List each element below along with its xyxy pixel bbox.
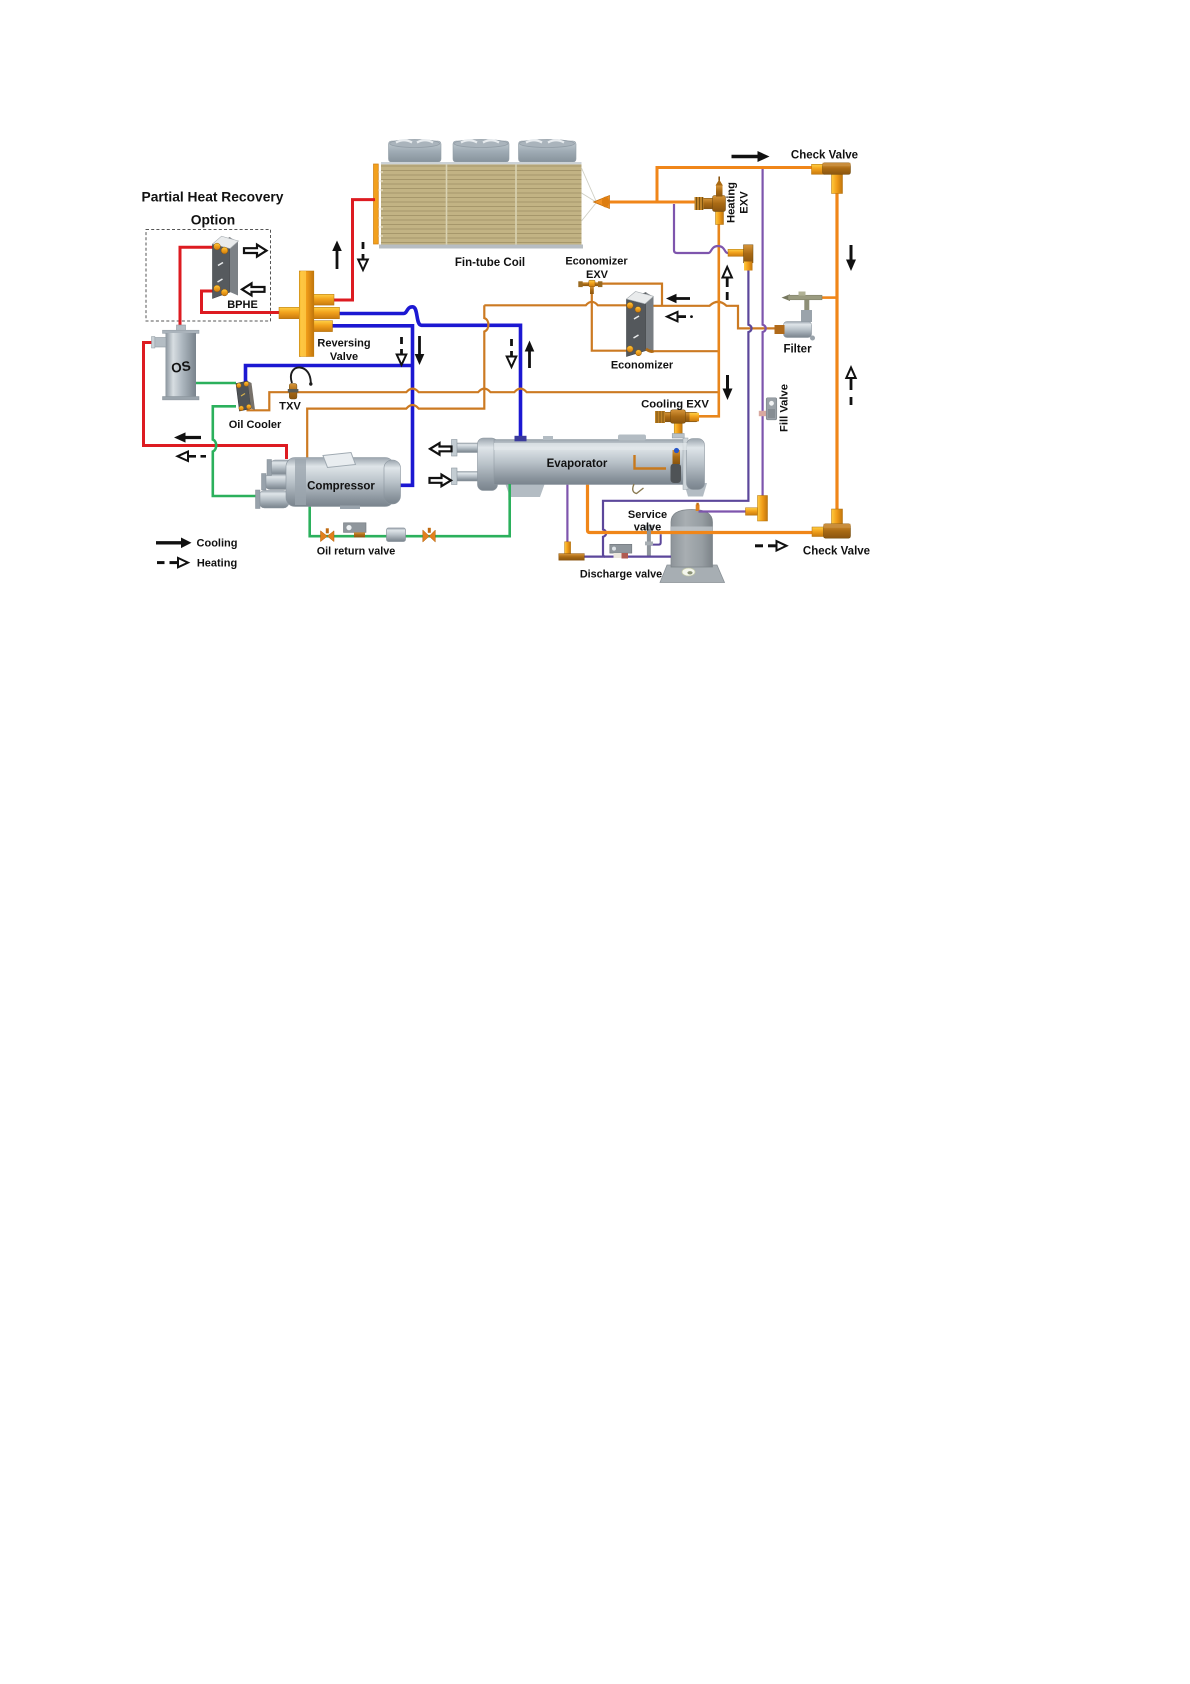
compressor bbox=[256, 453, 401, 510]
arrow: down dashed at evap blue bbox=[507, 339, 517, 367]
blue pipe B: valve to compressor bbox=[332, 326, 413, 486]
svg-text:Economizer: Economizer bbox=[565, 256, 628, 268]
svg-text:Fill Valve: Fill Valve bbox=[779, 384, 791, 432]
dashed option box bbox=[146, 230, 271, 322]
svg-text:Discharge valve: Discharge valve bbox=[580, 569, 662, 581]
thin orange: economizer EXV branch bbox=[601, 284, 662, 306]
oil return valve assembly bbox=[321, 523, 436, 542]
arrow: hollow left dashed (red line) bbox=[178, 452, 207, 461]
fan 3 bbox=[519, 140, 577, 163]
arrow: up solid (cooling, left of red riser) bbox=[332, 241, 342, 270]
BPHE heat exchanger bbox=[213, 236, 239, 298]
check valve top right bbox=[812, 163, 851, 194]
red pipe: OS to compressor bbox=[144, 343, 287, 460]
fitting under evaporator drain bbox=[559, 542, 585, 560]
purple: evaporator drain to fitting bbox=[566, 483, 568, 542]
svg-text:Oil Cooler: Oil Cooler bbox=[229, 419, 282, 431]
evaporator bbox=[452, 435, 708, 501]
arrow: down solid at blue pair bbox=[415, 336, 425, 365]
svg-text:Heating: Heating bbox=[726, 182, 738, 223]
thin orange: liquid line to economizer and filter bbox=[484, 302, 776, 329]
purple: service valve tap bbox=[650, 534, 661, 544]
fan 2 bbox=[453, 140, 509, 163]
arrow: hollow up + dash right main bbox=[846, 368, 855, 406]
svg-text:EXV: EXV bbox=[586, 269, 609, 281]
svg-text:Compressor: Compressor bbox=[307, 481, 375, 493]
arrow: solid down right main bbox=[846, 245, 856, 271]
thick orange: filter outlet bbox=[821, 296, 837, 299]
svg-text:EXV: EXV bbox=[739, 191, 751, 214]
svg-text:Partial Heat Recovery: Partial Heat Recovery bbox=[142, 190, 284, 205]
purple: top line to fill valve and tee fitting bbox=[763, 169, 766, 496]
orange: heating EXV drop to cooling EXV bbox=[698, 209, 719, 416]
purple: heating EXV tap to elbow bbox=[674, 204, 730, 253]
arrow: dashed right (bottom check valve) bbox=[755, 541, 787, 550]
coil left header bar bbox=[374, 164, 379, 244]
label: Heating EXV (rotated) bbox=[726, 182, 751, 223]
svg-text:Reversing: Reversing bbox=[317, 338, 370, 350]
arrow: solid left (economizer) bbox=[666, 294, 690, 304]
blue branch to oil cooler bbox=[246, 366, 413, 383]
purple: bottom run to accumulator bbox=[584, 555, 671, 557]
filter bbox=[775, 292, 823, 341]
internals right end bbox=[635, 455, 667, 469]
tee fitting above accumulator bbox=[746, 496, 768, 522]
svg-text:Fin-tube Coil: Fin-tube Coil bbox=[455, 257, 525, 269]
svg-text:BPHE: BPHE bbox=[227, 299, 258, 311]
svg-text:OS: OS bbox=[170, 358, 192, 376]
arrow: BPHE in (hollow block left) bbox=[242, 283, 265, 295]
oil cooler bbox=[236, 381, 255, 411]
thin orange: EXV to economizer bottom bbox=[592, 287, 627, 351]
fan 1 bbox=[389, 140, 442, 163]
thick orange: evaporator drain and bottom main line bbox=[588, 483, 837, 533]
service valve bbox=[645, 526, 653, 556]
arrow: hollow left (evaporator top) bbox=[430, 443, 452, 455]
arrow: down dashed at blue pair bbox=[397, 337, 407, 365]
thin orange: economizer bottom out bbox=[653, 350, 718, 352]
arrow: solid right to check valve bbox=[732, 151, 770, 162]
svg-text:Cooling EXV: Cooling EXV bbox=[641, 399, 709, 411]
right distributor bbox=[582, 167, 597, 222]
violet: elbow drop to low purple run bbox=[603, 270, 752, 557]
red pipe: BPHE bottom to reversing valve bbox=[202, 291, 285, 313]
arrow: hollow right (evaporator bottom) bbox=[430, 475, 452, 487]
arrow: hollow up + dash (heating exv riser) bbox=[723, 267, 732, 300]
svg-text:Filter: Filter bbox=[783, 344, 812, 356]
svg-text:Evaporator: Evaporator bbox=[547, 458, 608, 470]
fill valve bbox=[759, 398, 777, 420]
svg-text:Economizer: Economizer bbox=[611, 360, 674, 372]
svg-text:Oil return valve: Oil return valve bbox=[317, 546, 396, 558]
thick orange: right vertical main bbox=[835, 193, 838, 511]
OS oil separator bbox=[152, 325, 200, 400]
legend bbox=[156, 538, 192, 549]
svg-text:Service: Service bbox=[628, 509, 667, 521]
green pipe: compressor loop to evaporator bbox=[310, 483, 510, 536]
accumulator tank bbox=[660, 503, 725, 583]
svg-text:Cooling: Cooling bbox=[197, 538, 238, 550]
purple: tee fitting to accumulator stub bbox=[699, 510, 747, 512]
thin orange: oil cooler to TXV line bbox=[247, 389, 719, 411]
svg-text:Heating: Heating bbox=[197, 557, 237, 569]
label: Fill Valve (rotated) bbox=[779, 384, 791, 432]
fin-tube coil bbox=[374, 140, 610, 249]
svg-text:TXV: TXV bbox=[279, 401, 301, 413]
red pipe: reversing valve to coil bbox=[334, 200, 375, 300]
economizer EXV bbox=[578, 280, 602, 294]
cooling EXV bbox=[655, 410, 699, 438]
thick orange: riser to top line and check valve bbox=[656, 168, 813, 203]
arrow: solid down (cooling exv feed) bbox=[723, 375, 733, 400]
green pipe: OS to oil cooler bbox=[196, 382, 237, 385]
reversing valve bbox=[279, 271, 340, 357]
svg-text:Valve: Valve bbox=[330, 351, 358, 363]
green pipe: oil cooler to compressor bbox=[213, 406, 261, 496]
arrow: up solid at evap blue bbox=[525, 341, 535, 369]
thin orange: compressor top riser to liquid line bbox=[307, 305, 488, 463]
heating EXV bbox=[695, 177, 726, 225]
arrow: BPHE out (solid block right) bbox=[244, 245, 267, 257]
svg-text:Check Valve: Check Valve bbox=[803, 546, 870, 558]
svg-text:valve: valve bbox=[634, 522, 662, 534]
check valve bottom right bbox=[812, 509, 851, 538]
economizer bbox=[627, 292, 654, 357]
arrow: solid left (OS red line) bbox=[174, 432, 201, 442]
svg-text:Check Valve: Check Valve bbox=[791, 150, 858, 162]
coil body bbox=[381, 162, 582, 245]
red pipe: BPHE top to OS bbox=[180, 247, 213, 327]
TXV bbox=[288, 367, 313, 399]
arrow: hollow left dashed (economizer) bbox=[667, 312, 693, 321]
discharge valve bbox=[610, 544, 632, 558]
blue pipe A: valve to evaporator bbox=[334, 307, 521, 438]
svg-text:Option: Option bbox=[191, 213, 235, 228]
thick orange: distributor to heating EXV bbox=[610, 201, 701, 204]
elbow fitting (heating exv line) bbox=[728, 245, 753, 271]
arrow: down dashed (heating, right of red riser) bbox=[358, 242, 368, 270]
